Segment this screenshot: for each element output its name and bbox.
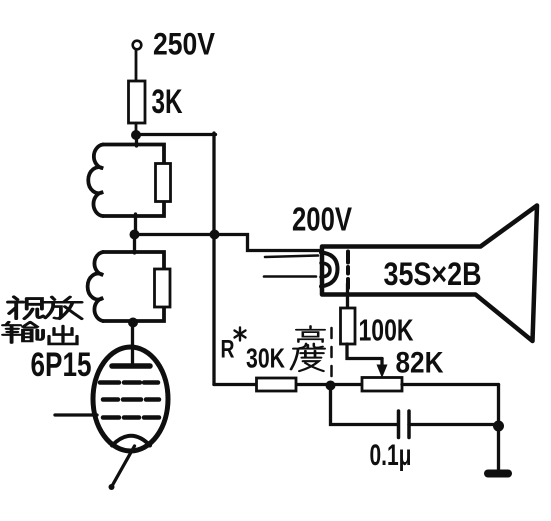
tube grid dashes row 2 xyxy=(103,397,159,402)
wire xyxy=(135,50,138,83)
resistor R* 30K xyxy=(257,378,297,391)
tube grid dashes row 3 xyxy=(103,415,159,420)
node A xyxy=(131,130,141,140)
CRT heater lead xyxy=(264,275,316,278)
wire xyxy=(135,134,138,146)
wire xyxy=(215,235,322,251)
ground xyxy=(488,470,508,478)
svg-text:3K: 3K xyxy=(152,83,183,121)
wire anode lead xyxy=(131,322,134,364)
tube U1 6P15 envelope xyxy=(93,347,168,451)
label 亮 xyxy=(296,326,325,348)
resistor 3K xyxy=(129,81,146,123)
label 度 xyxy=(291,345,325,371)
tube grid lead wire xyxy=(55,413,97,416)
svg-text:35S×2B: 35S×2B xyxy=(384,256,482,292)
tube cathode arc xyxy=(112,436,150,446)
CRT cathode outer arc xyxy=(321,253,338,287)
wire xyxy=(212,133,215,385)
svg-text:82K: 82K xyxy=(396,347,444,380)
node F xyxy=(493,421,504,432)
tube anode plate xyxy=(112,363,150,369)
svg-text:200V: 200V xyxy=(292,201,352,238)
svg-text:30K: 30K xyxy=(246,343,285,374)
resistor 100K xyxy=(341,308,356,344)
wire xyxy=(497,385,500,471)
wire xyxy=(295,383,363,386)
node D xyxy=(128,318,138,328)
tube grid dashes row 1 xyxy=(100,380,158,385)
wire xyxy=(214,383,258,386)
label asterisk xyxy=(235,328,246,341)
svg-text:250V: 250V xyxy=(153,26,215,62)
svg-text:100K: 100K xyxy=(359,313,414,348)
wire xyxy=(133,234,136,253)
wire xyxy=(134,214,137,235)
capacitor C1 0.1u xyxy=(397,411,401,438)
label 放 xyxy=(44,297,82,319)
svg-text:6P15: 6P15 xyxy=(31,346,92,384)
wire xyxy=(134,133,216,136)
tube cathode lead wire xyxy=(112,446,135,486)
damping resistor of L1 xyxy=(156,164,171,202)
wire xyxy=(131,320,134,324)
wire xyxy=(135,123,138,136)
peaking coil L1 xyxy=(88,145,103,217)
damping resistor of L2 xyxy=(155,269,171,307)
label 视 xyxy=(8,297,43,319)
node B xyxy=(130,230,140,240)
label 输 xyxy=(3,322,43,343)
svg-text:R: R xyxy=(221,336,235,364)
node C xyxy=(210,230,220,240)
wire xyxy=(331,386,399,425)
CRT V1 35S×2B outline xyxy=(322,206,537,342)
wire grid lead down xyxy=(346,284,349,309)
CRT cathode inner arc xyxy=(321,263,330,277)
terminal 250V xyxy=(133,41,142,50)
node E xyxy=(326,381,336,391)
svg-text:0.1μ: 0.1μ xyxy=(370,439,412,472)
label 出 xyxy=(49,326,77,344)
wire xyxy=(347,344,382,359)
wire xyxy=(134,233,216,236)
wire xyxy=(402,383,499,386)
wire xyxy=(409,423,499,426)
wiper arrow xyxy=(380,359,383,369)
dashed link brightness xyxy=(330,328,333,378)
CRT heater lead xyxy=(265,256,318,258)
CRT grid dashed electrode xyxy=(346,252,350,289)
potentiometer 82K xyxy=(362,378,402,392)
peaking coil L2 xyxy=(88,252,103,321)
